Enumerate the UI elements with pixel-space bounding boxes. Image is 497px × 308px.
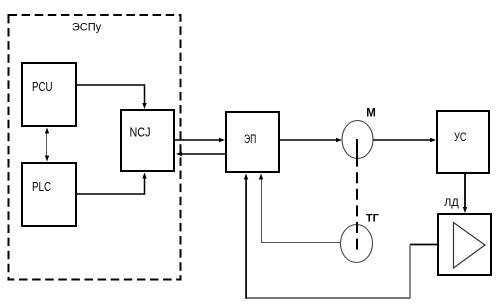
- wire ЭП to NCJ: [176, 152, 226, 156]
- block PCU: [22, 63, 76, 126]
- wire up to ЭП bottom: [244, 174, 248, 299]
- amplifier triangle inside ЛД: [454, 223, 486, 269]
- wire PCU to NCJ top: [77, 85, 147, 109]
- svg-text:NCJ: NCJ: [130, 126, 151, 140]
- label ЛД: [444, 197, 459, 209]
- dashed enclosure ЭСПу: [9, 15, 181, 280]
- label М: [366, 108, 376, 120]
- wire PLC to NCJ bottom: [77, 173, 147, 195]
- svg-text:ТГ: ТГ: [366, 213, 380, 225]
- svg-text:PLC: PLC: [32, 180, 51, 194]
- block УС: [437, 111, 489, 173]
- block NCJ: [121, 110, 174, 171]
- svg-text:ЛД: ЛД: [444, 197, 459, 209]
- wire NCJ to ЭП: [175, 138, 225, 142]
- wire M to УС: [373, 138, 436, 142]
- block PLC: [22, 163, 76, 226]
- wire bottom feedback: [245, 297, 410, 299]
- wire ЭП to M: [280, 138, 342, 142]
- wire ТГ to ЭП bottom: [259, 174, 340, 243]
- wire corner down: [409, 245, 411, 299]
- wire УС to ЛД: [463, 174, 467, 213]
- motor M ellipse: [342, 121, 373, 159]
- svg-text:PCU: PCU: [32, 80, 53, 94]
- label ТГ: [366, 213, 380, 225]
- svg-text:ЭСПу: ЭСПу: [72, 22, 102, 34]
- block ЛД: [438, 214, 491, 275]
- tachogenerator ТГ ellipse: [341, 225, 373, 263]
- svg-text:М: М: [366, 108, 376, 120]
- svg-text:УС: УС: [454, 130, 467, 144]
- svg-text:ЭП: ЭП: [244, 132, 256, 146]
- wire PCU-PLC double arrow: [45, 128, 49, 162]
- block ЭП: [226, 112, 279, 172]
- dashed shaft line M to ТГ: [356, 139, 358, 250]
- label ЭСПу: [72, 22, 102, 34]
- wire ЛД to corner: [410, 244, 438, 246]
